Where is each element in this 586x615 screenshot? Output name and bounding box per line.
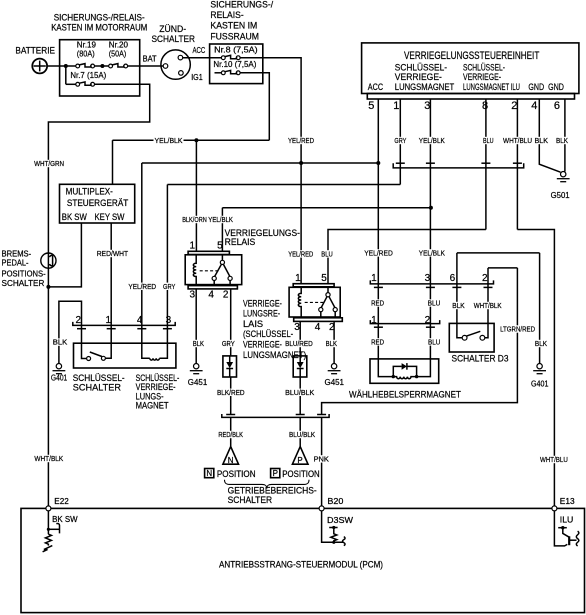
svg-text:P: P	[297, 456, 302, 465]
svg-text:G451: G451	[325, 378, 345, 387]
svg-text:BLU/BLK: BLU/BLK	[289, 430, 315, 439]
PCM input BK SW	[43, 511, 60, 552]
wire label WHT/BLK	[33, 454, 64, 463]
svg-text:G401: G401	[51, 374, 68, 383]
wire label BLU	[482, 136, 495, 145]
node battery feed	[64, 64, 68, 68]
svg-text:1: 1	[106, 315, 112, 326]
pin 1 tick	[107, 328, 116, 330]
wire YEL/BLK rail horizontal	[113, 139, 270, 141]
wire LTGRN/RED drop and run to range switch connector	[322, 268, 518, 415]
svg-text:4: 4	[208, 290, 214, 301]
svg-text:LTGRN/RED: LTGRN/RED	[500, 325, 535, 334]
svg-text:B20: B20	[327, 497, 344, 506]
shift lever lock magnet WAEHLHEBELSPERRMAGNET	[349, 359, 461, 401]
ignition switch ZUND-SCHALTER	[143, 24, 206, 82]
svg-text:4: 4	[531, 100, 537, 112]
node fuse junction	[100, 64, 104, 68]
wire label RED/BLK	[217, 430, 244, 439]
wire pin2 horizontal to LTGRN/RED drop	[488, 267, 517, 269]
wire label BLK	[52, 338, 69, 347]
svg-text:5: 5	[368, 100, 374, 112]
wire pin2 WHT/BLU down	[516, 99, 518, 230]
wire BLU/BLK down to range switch connector	[299, 377, 301, 415]
wire YEL/BLK drop to relay pin5	[221, 208, 223, 252]
relay2 changeover switch	[319, 287, 338, 318]
fuse Nr.8 (7,5A)	[221, 55, 240, 59]
wire BLU jog from pin8 to relay2 pin5	[328, 230, 486, 284]
wire pin8 BLU down	[485, 99, 487, 230]
wire label YEL/BLK	[154, 136, 184, 145]
svg-text:KEY SW: KEY SW	[95, 212, 125, 222]
wire ACC terminal to footwell fuse box	[183, 57, 222, 59]
node YEL/RED junction on ACC rail	[299, 161, 303, 165]
wire label YEL/RED	[363, 248, 394, 257]
svg-text:ILU: ILU	[560, 516, 574, 525]
control unit VERRIEGELUNGSSTEUEREINHEIT	[362, 43, 579, 99]
svg-text:BLU: BLU	[321, 249, 332, 258]
svg-text:MULTIPLEX-: MULTIPLEX-	[66, 187, 113, 197]
wire label BLU	[427, 299, 442, 308]
node BLK/ORN junction on YEL/BLK rail	[194, 138, 198, 142]
wire YEL/BLK relay rail horizontal	[222, 207, 431, 209]
svg-text:SCHALTER: SCHALTER	[2, 279, 45, 288]
wire pin2 into switch	[82, 325, 87, 358]
svg-text:BLK: BLK	[556, 136, 568, 145]
wire label RED/WHT	[96, 249, 130, 258]
svg-text:VERRIEGELUNGSSTEUEREINHEIT: VERRIEGELUNGSSTEUEREINHEIT	[404, 50, 540, 62]
wire label GRY	[393, 136, 407, 145]
svg-text:WHT/BLU: WHT/BLU	[540, 455, 568, 464]
svg-text:MAGNET: MAGNET	[136, 401, 169, 411]
svg-text:3: 3	[190, 290, 196, 301]
svg-text:YEL/RED: YEL/RED	[128, 282, 156, 291]
brace for transmission range switch	[225, 480, 310, 489]
svg-text:ACC: ACC	[368, 82, 383, 93]
PCM output ILU transistor	[554, 511, 578, 546]
wire pin1 GRY down	[399, 99, 401, 185]
relay2 dashed link	[305, 301, 325, 303]
wire label RED	[370, 337, 385, 346]
svg-text:RELAIS-: RELAIS-	[210, 10, 243, 20]
svg-text:3: 3	[424, 100, 430, 112]
wire pin2 WHT/BLK down into switch D3	[487, 268, 489, 324]
wire label YEL/BLK	[418, 248, 446, 257]
svg-text:E22: E22	[54, 497, 69, 506]
svg-text:Nr.7 (15A): Nr.7 (15A)	[70, 71, 106, 80]
connector B20	[319, 497, 353, 525]
svg-text:4: 4	[137, 315, 143, 326]
wire label YEL/RED	[287, 249, 314, 258]
svg-text:YEL/BLK: YEL/BLK	[419, 136, 445, 145]
svg-text:STEUERGERÄT: STEUERGERÄT	[67, 198, 129, 208]
wire relay1 pin3 BLK to ground	[195, 289, 197, 364]
fuse Nr.19 (80A)	[76, 64, 95, 68]
svg-text:POSITION: POSITION	[282, 469, 319, 479]
shift magnet connector bar row1	[370, 280, 493, 284]
svg-text:G451: G451	[188, 378, 208, 387]
svg-text:Nr.19: Nr.19	[77, 40, 97, 49]
svg-text:SCHALTER: SCHALTER	[228, 495, 273, 505]
wire fuse20 to BAT terminal	[128, 65, 164, 67]
svg-text:YEL/BLK: YEL/BLK	[208, 215, 233, 224]
svg-text:BLK/RED: BLK/RED	[217, 388, 245, 397]
svg-text:RED/BLK: RED/BLK	[218, 430, 243, 439]
svg-text:3: 3	[425, 273, 431, 284]
svg-text:ZÜND-: ZÜND-	[159, 24, 186, 34]
svg-text:D3SW: D3SW	[327, 516, 353, 525]
svg-text:N: N	[228, 456, 234, 465]
svg-text:PEDAL-: PEDAL-	[2, 259, 29, 268]
PCM input D3SW	[322, 511, 345, 546]
wire YEL/BLK rail drop into multiplex unit	[112, 140, 114, 184]
pin 1 connector tick	[396, 162, 405, 164]
wire label BLK/ORN	[181, 215, 208, 224]
svg-text:LUNGSMAGNET: LUNGSMAGNET	[395, 82, 455, 93]
svg-text:SICHERUNGS-/RELAIS-: SICHERUNGS-/RELAIS-	[54, 13, 145, 23]
svg-text:1: 1	[371, 273, 377, 284]
wire label YEL/BLK	[207, 215, 234, 224]
svg-text:WHT/BLK: WHT/BLK	[34, 454, 63, 463]
wire WHT/BLU jog to E13 column	[517, 230, 554, 507]
svg-text:WHT/GRN: WHT/GRN	[34, 159, 64, 168]
wire fuse8 out right then down (YEL/RED)	[240, 58, 301, 284]
svg-text:ACC: ACC	[193, 46, 206, 55]
svg-text:5: 5	[321, 273, 327, 284]
pin 2 connector tick	[513, 162, 522, 164]
svg-text:GND: GND	[548, 82, 564, 93]
svg-text:4: 4	[315, 322, 321, 333]
svg-text:FUSSRAUM: FUSSRAUM	[210, 32, 259, 42]
relay1 changeover switch	[212, 255, 232, 286]
wire label BLU	[320, 249, 333, 258]
wire pin5 ACC down to rail and magnet connector	[377, 99, 379, 359]
svg-text:8: 8	[482, 100, 488, 112]
brake pedal position switch	[2, 250, 57, 289]
wire pin3 into coil	[159, 325, 167, 358]
svg-text:6: 6	[450, 273, 456, 284]
wire relay2 pin2 BLK to ground	[333, 321, 335, 363]
svg-text:E13: E13	[560, 497, 575, 506]
wire pin6 horizontal to ground drop	[457, 252, 540, 254]
wire relay1 pin2 GRY down to diode	[230, 289, 232, 356]
connector bar below control unit	[393, 163, 524, 168]
node pin3/relay rail junction	[429, 206, 433, 210]
svg-text:(80A): (80A)	[77, 49, 95, 58]
node brake switch / BK SW junction	[46, 285, 50, 289]
wire ACC rail horizontal	[142, 162, 378, 164]
P position triangle	[292, 447, 308, 465]
wire label WHT/BLU	[539, 455, 569, 464]
wire BLK drop to ground G401	[539, 253, 541, 364]
svg-text:2: 2	[482, 273, 488, 284]
relay VERRIEGELUNGS-RELAIS	[185, 228, 300, 301]
svg-text:GRY: GRY	[394, 136, 406, 145]
PNK tick	[317, 414, 326, 416]
wire label BLK	[192, 339, 205, 348]
diode unit right	[293, 356, 307, 377]
wire pin6 BLK down into switch D3	[456, 253, 458, 324]
label SCHLUESSEL-VERRIEGELUNGSMAGNET	[136, 373, 180, 411]
pin 2 tick row2	[426, 326, 435, 328]
wire pin1 into switch	[106, 325, 112, 358]
svg-text:2: 2	[76, 315, 82, 326]
pin 3 tick	[426, 286, 435, 288]
boxed N POSITION label	[205, 469, 256, 479]
svg-text:SCHALTER: SCHALTER	[73, 383, 121, 394]
fuse Nr.20 (50A)	[109, 64, 128, 68]
relay2 VERRIEGELUNGSRELAIS (SCHLUESSEL-VERRIEGELUNGSMAGNET)	[243, 273, 342, 361]
svg-text:2: 2	[223, 290, 229, 301]
svg-text:1: 1	[190, 241, 196, 252]
switch D3 SCHALTER D3	[449, 323, 508, 364]
wire fuse10 out right then down to YEL/BLK rail	[240, 73, 269, 140]
svg-text:ANTRIEBSSTRANG-STEUERMODUL (PC: ANTRIEBSSTRANG-STEUERMODUL (PCM)	[219, 560, 383, 570]
wire pin4 into coil	[142, 325, 150, 358]
svg-text:BLU: BLU	[428, 337, 440, 346]
wire label BLU	[427, 337, 441, 346]
svg-text:N: N	[206, 469, 212, 478]
svg-text:BLU/BLK: BLU/BLK	[285, 388, 314, 397]
wire label BLK	[534, 136, 550, 145]
svg-text:YEL/BLK: YEL/BLK	[155, 136, 183, 145]
svg-text:YEL/RED: YEL/RED	[288, 136, 314, 145]
svg-text:2: 2	[425, 315, 431, 326]
svg-text:YEL/RED: YEL/RED	[364, 248, 393, 257]
svg-text:1: 1	[295, 273, 301, 284]
relay1 coil	[193, 255, 196, 286]
wire BLK/RED down to range switch connector	[230, 377, 232, 415]
key switch and lock solenoid box	[74, 343, 176, 368]
wire label BLK	[534, 339, 548, 348]
key switch connector bar	[73, 322, 175, 326]
key switch SCHLUESSEL-SCHALTER contacts	[87, 352, 106, 361]
svg-text:POSITIONS-: POSITIONS-	[2, 270, 47, 279]
svg-text:BLU/RED: BLU/RED	[285, 339, 313, 348]
wire BK SW down then left to brake switch node	[48, 223, 81, 287]
wire label LTGRN/RED	[499, 325, 536, 334]
svg-text:SICHERUNGS-/: SICHERUNGS-/	[210, 0, 273, 10]
ground G401 right	[531, 364, 549, 389]
label GETRIEBEBEREICHS-SCHALTER	[228, 486, 317, 505]
svg-text:RED/WHT: RED/WHT	[97, 249, 129, 258]
svg-text:3: 3	[294, 322, 300, 333]
label SCHLUESSEL-SCHALTER	[73, 373, 125, 394]
wire GRY rail horizontal	[167, 184, 400, 186]
pin 4 tick	[137, 328, 146, 330]
pin 3 tick	[163, 328, 172, 330]
pin 6 tick	[452, 286, 461, 288]
pin 1 tick row2	[374, 326, 383, 328]
wire label YEL/RED	[287, 136, 315, 145]
pin 2 tick	[484, 286, 493, 288]
wire label BLU/RED	[284, 339, 314, 348]
svg-text:BREMS-: BREMS-	[2, 250, 32, 259]
wire label YEL/BLK	[418, 136, 446, 145]
wire key switch pin2 to ground G401	[59, 301, 82, 363]
wire YEL/RED drop to key switch connector pin4	[141, 163, 143, 325]
wire battery to fuse box	[47, 65, 76, 67]
pin 3 connector tick	[426, 162, 435, 164]
ground G451 left	[188, 364, 208, 388]
wire BLK/ORN drop to relay pin1	[195, 140, 197, 251]
svg-text:KASTEN IM: KASTEN IM	[210, 21, 257, 31]
wire to N position	[230, 417, 232, 447]
node pin5/ACC rail junction	[376, 161, 380, 165]
RED/BLK tick	[226, 414, 235, 416]
wire pin3 YEL/BLK down to magnet connector	[429, 99, 431, 359]
boxed P POSITION label	[271, 469, 320, 479]
svg-text:PNK: PNK	[314, 454, 330, 463]
relay1 dashed link	[200, 270, 219, 272]
svg-text:KASTEN IM MOTORRAUM: KASTEN IM MOTORRAUM	[51, 23, 147, 33]
wire label GRY	[221, 339, 236, 348]
svg-text:YEL/RED: YEL/RED	[288, 249, 313, 258]
diode unit left	[223, 356, 237, 377]
ground G401 left	[51, 364, 68, 383]
wire label BLU/BLK	[284, 388, 315, 397]
shift magnet connector bar row2	[370, 320, 439, 324]
BLU/BLK tick	[296, 414, 305, 416]
wire label GRY	[162, 282, 176, 291]
svg-text:Nr.8 (7,5A): Nr.8 (7,5A)	[214, 46, 258, 55]
svg-text:YEL/BLK: YEL/BLK	[419, 248, 445, 257]
wire fuse19 to fuse20	[95, 65, 109, 67]
wire label WHT/BLU	[502, 136, 533, 145]
svg-text:Nr.20: Nr.20	[109, 40, 129, 49]
wire label BLK	[325, 339, 338, 348]
svg-text:GRY: GRY	[222, 339, 235, 348]
svg-text:BLK: BLK	[326, 339, 338, 348]
wire label PNK	[313, 454, 330, 463]
wire to P position	[299, 417, 301, 447]
svg-text:P: P	[273, 469, 278, 478]
svg-text:GRY: GRY	[163, 282, 175, 291]
svg-text:WHT/BLU: WHT/BLU	[503, 136, 532, 145]
wire label YEL/RED	[127, 282, 157, 291]
multiplex control unit	[60, 184, 135, 223]
svg-text:BK SW: BK SW	[62, 212, 87, 222]
svg-text:BLK: BLK	[452, 301, 465, 310]
N position triangle	[223, 447, 239, 465]
svg-text:BLK: BLK	[193, 339, 204, 348]
svg-text:2: 2	[511, 100, 517, 112]
fuse Nr.10 (7,5A)	[215, 70, 241, 74]
fuse/relay box engine compartment	[51, 13, 147, 97]
svg-text:(50A): (50A)	[109, 49, 127, 58]
wire label BLK/RED	[216, 388, 246, 397]
svg-text:BLK: BLK	[535, 339, 547, 348]
svg-text:BLK: BLK	[535, 136, 549, 145]
svg-text:POSITION: POSITION	[217, 469, 256, 479]
svg-text:G501: G501	[551, 191, 571, 200]
transmission range switch connector bar	[222, 414, 329, 417]
svg-text:RED: RED	[371, 337, 384, 346]
wire label BLK	[555, 136, 569, 145]
svg-text:BLU: BLU	[428, 299, 441, 308]
pin 8 connector tick	[481, 162, 490, 164]
svg-text:LUNGSMAGNET ILU: LUNGSMAGNET ILU	[463, 82, 520, 93]
powertrain control module PCM box	[21, 508, 585, 612]
fuse Nr.7 (15A)	[76, 82, 95, 86]
connector E22	[46, 497, 78, 524]
key lock solenoid coil	[150, 358, 160, 360]
wire fuse7 out right then down then left (WHT/GRN feed)	[48, 84, 149, 253]
wire pin4 BLK down with diagonal to G501	[539, 99, 560, 172]
wire GRY drop to key switch connector pin3	[166, 185, 168, 326]
svg-text:6: 6	[554, 100, 560, 112]
svg-text:1: 1	[393, 100, 399, 112]
ground G501	[551, 172, 571, 201]
svg-text:BK SW: BK SW	[52, 515, 78, 524]
svg-text:RED: RED	[371, 299, 384, 308]
svg-text:WÄHLHEBELSPERRMAGNET: WÄHLHEBELSPERRMAGNET	[349, 390, 461, 401]
wire relay2 pin3 BLU/RED down to diode	[299, 321, 301, 356]
svg-text:Nr.10 (7,5A): Nr.10 (7,5A)	[213, 60, 256, 69]
ground G451 right	[325, 364, 345, 388]
pin 2 tick	[77, 328, 86, 330]
wire label BLK	[451, 301, 466, 310]
connector E13	[552, 497, 575, 525]
wire PNK down to B20	[321, 417, 323, 506]
wire KEY SW RED/WHT down to connector pin1	[110, 223, 112, 325]
svg-text:5: 5	[217, 241, 223, 252]
wire pin6 BLK down to G501	[564, 99, 566, 172]
svg-text:BATTERIE: BATTERIE	[15, 46, 55, 56]
svg-text:BLK: BLK	[53, 338, 68, 347]
battery B+	[15, 46, 55, 74]
wire label BLU/BLK	[288, 430, 316, 439]
svg-text:BAT: BAT	[143, 54, 157, 63]
pin 1 tick	[374, 286, 383, 288]
svg-text:SCHALTER: SCHALTER	[152, 34, 196, 44]
svg-text:WHT/BLK: WHT/BLK	[474, 301, 502, 310]
wire WHT/BLK from brake switch down to E22	[47, 268, 49, 506]
svg-text:1: 1	[371, 315, 377, 326]
wire battery junction down to fuse Nr.7	[65, 66, 67, 84]
wire label RED	[370, 299, 385, 308]
svg-text:BLU: BLU	[483, 136, 494, 145]
relay2 coil	[298, 287, 301, 318]
svg-text:GND: GND	[528, 82, 544, 93]
svg-text:BLK/ORN: BLK/ORN	[182, 215, 207, 224]
wire label WHT/GRN	[33, 159, 65, 168]
wire label WHT/BLK	[473, 301, 503, 310]
svg-text:SCHALTER D3: SCHALTER D3	[452, 354, 509, 365]
svg-text:RELAIS: RELAIS	[225, 237, 256, 248]
svg-text:IG1: IG1	[191, 73, 203, 82]
svg-text:3: 3	[166, 315, 172, 326]
fuse/relay box footwell	[210, 0, 274, 84]
svg-text:G401: G401	[531, 380, 549, 389]
